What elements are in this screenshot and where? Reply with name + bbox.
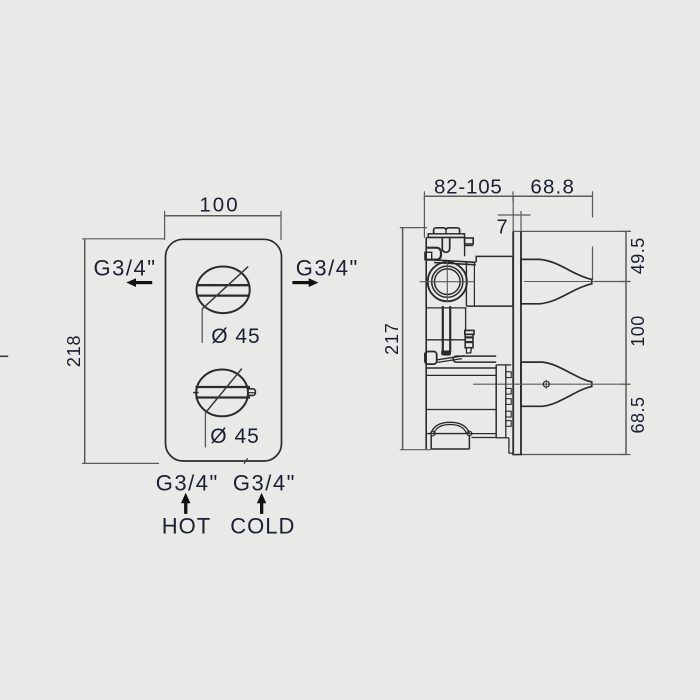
thread rib 1 <box>506 372 511 378</box>
plate back extension up <box>520 211 522 231</box>
top dim tick right <box>592 191 594 217</box>
svg-text:G3/4": G3/4" <box>156 470 219 495</box>
bottom connector bottom <box>472 437 497 439</box>
dimension 218 top extension <box>82 238 165 240</box>
handle 1 centerline <box>524 281 630 283</box>
svg-text:G3/4": G3/4" <box>233 470 296 495</box>
bottom stub bottom <box>431 448 469 450</box>
top dim tick mid <box>512 191 514 201</box>
arrow cold inlet <box>257 493 266 514</box>
bottom stub left <box>430 435 432 449</box>
svg-text:68.5: 68.5 <box>628 396 648 433</box>
housing lower right edge <box>465 308 467 332</box>
handle 2 center marker <box>543 381 549 387</box>
dimension 100 line <box>165 215 281 217</box>
right section inner vline <box>505 365 507 438</box>
extension handle tip <box>592 246 594 280</box>
dimension 7 line <box>498 214 531 216</box>
top block right edge <box>464 238 466 257</box>
wall plate front line <box>512 231 514 454</box>
svg-text:100: 100 <box>199 194 239 217</box>
plate front extension up <box>512 196 514 231</box>
right dim tick 1 <box>621 230 631 232</box>
arrow left outlet <box>126 278 152 287</box>
handle 2 marker tick <box>545 380 547 389</box>
left hook <box>427 248 441 260</box>
dimension 217 line <box>402 228 404 450</box>
bottom knob diagonal <box>205 369 241 413</box>
cartridge housing inner right edge <box>473 262 475 306</box>
dimension 100 left extension <box>164 211 166 240</box>
bottom knob leader <box>204 413 206 448</box>
svg-text:100: 100 <box>628 315 648 347</box>
thread rib 5 <box>506 421 511 427</box>
lower box top edge <box>426 367 496 369</box>
wall plate bottom edge <box>512 454 522 456</box>
arch end circle left <box>431 431 436 436</box>
wall plate back line <box>520 231 522 454</box>
svg-text:COLD: COLD <box>230 514 295 539</box>
extension plate top <box>513 230 630 232</box>
svg-text:49.5: 49.5 <box>628 237 648 274</box>
extension plate bottom <box>516 454 627 456</box>
right dim tick 4 <box>621 454 631 456</box>
stem left line <box>442 306 444 352</box>
extension handle1 tip level <box>595 281 630 283</box>
plate bottom tick <box>244 458 248 463</box>
lower left tab <box>425 352 437 365</box>
stem slot <box>442 238 449 253</box>
bottom knob circle <box>196 370 248 417</box>
bottom pipe lower line <box>496 437 509 439</box>
bottom arch inner <box>434 425 467 434</box>
svg-text:68.8: 68.8 <box>530 175 575 198</box>
top flange <box>428 234 464 238</box>
mid right fitting band 1 <box>465 336 473 338</box>
top bolt split <box>445 229 447 234</box>
dimension 217 bottom extension <box>400 449 431 451</box>
cartridge middle circle <box>432 266 463 297</box>
mid right fitting body <box>465 334 473 347</box>
mid block divider <box>426 339 465 341</box>
cartridge right box <box>466 256 513 306</box>
bottom pipe bottom line <box>509 452 513 454</box>
lower box right edge <box>495 365 497 438</box>
stem right line <box>449 306 451 352</box>
handle 2 (bottom) outline <box>521 362 592 406</box>
dimension 100 right extension <box>280 211 282 240</box>
dimension 218 bottom extension <box>82 462 159 464</box>
svg-text:7: 7 <box>496 217 507 239</box>
top knob leader <box>201 309 203 343</box>
stem bottom cap <box>441 351 451 356</box>
cartridge outer circle <box>428 262 467 301</box>
svg-text:HOT: HOT <box>162 514 211 539</box>
dimension 217 top extension <box>400 227 427 229</box>
right dimension line <box>625 231 627 454</box>
arch end circle right <box>467 431 472 436</box>
svg-text:218: 218 <box>64 335 84 367</box>
handle 2 centerline <box>473 383 630 385</box>
thread rib 2 <box>506 388 511 394</box>
thread rib 3 <box>506 399 511 405</box>
arrow right outlet <box>292 278 318 287</box>
left small tab <box>425 252 432 259</box>
housing bottom lower line <box>426 307 466 309</box>
mid fitting taper <box>466 348 471 354</box>
svg-text:Ø 45: Ø 45 <box>211 325 261 348</box>
bottom stub right <box>468 435 470 449</box>
top dim tick left <box>423 191 425 201</box>
cartridge centerline vertical <box>446 261 448 303</box>
bottom knob slot upper line <box>196 386 251 388</box>
bottom knob lug <box>248 389 255 396</box>
lower box inner line 2 <box>426 409 496 411</box>
body left face <box>425 238 427 449</box>
bottom knob slot lower line <box>196 396 251 398</box>
diagonal link upper <box>437 356 465 360</box>
right dim tick 3 <box>621 383 631 385</box>
plate outline <box>166 239 282 461</box>
cartridge housing right edge <box>465 262 467 306</box>
right section top edge <box>496 364 511 366</box>
dimension 218 line <box>84 239 86 464</box>
bottom knob left tick <box>193 392 198 394</box>
bottom connector top <box>472 433 497 435</box>
top knob diagonal <box>202 267 248 309</box>
mid right fitting top cap <box>465 330 474 334</box>
extension 82-105 left <box>423 196 425 238</box>
cartridge centerline horizontal <box>420 281 475 283</box>
svg-text:G3/4": G3/4" <box>296 256 359 281</box>
thread rib 4 <box>506 411 511 417</box>
top block top edge <box>426 237 464 239</box>
lower flange band <box>453 356 496 362</box>
svg-text:Ø 45: Ø 45 <box>210 425 260 448</box>
lower box inner line 1 <box>426 374 496 376</box>
svg-text:217: 217 <box>382 322 402 354</box>
bottom arch outer <box>431 422 470 433</box>
top knob circle <box>197 267 250 314</box>
top knob slot upper line <box>197 284 250 286</box>
mid right fitting band 2 <box>465 341 473 343</box>
left margin dash <box>0 355 8 357</box>
svg-text:G3/4": G3/4" <box>94 256 157 281</box>
bottom knob lug mid line <box>248 392 255 394</box>
right dim tick 2 <box>621 281 631 283</box>
cartridge inner circle <box>435 269 461 295</box>
svg-text:82-105: 82-105 <box>434 175 503 198</box>
top bolt head <box>434 228 460 234</box>
slanted band top <box>434 260 476 262</box>
bottom pipe right vline <box>508 438 510 453</box>
top knob slot lower line <box>197 294 250 296</box>
diagonal link lower <box>438 359 463 363</box>
slanted band bottom <box>434 263 476 265</box>
top right tab lower line <box>465 245 474 247</box>
lower box bottom edge <box>426 433 473 435</box>
top dimension line <box>424 195 592 197</box>
top right tab <box>465 238 474 244</box>
handle 1 (top) outline <box>521 259 592 303</box>
arrow hot inlet <box>181 493 190 514</box>
